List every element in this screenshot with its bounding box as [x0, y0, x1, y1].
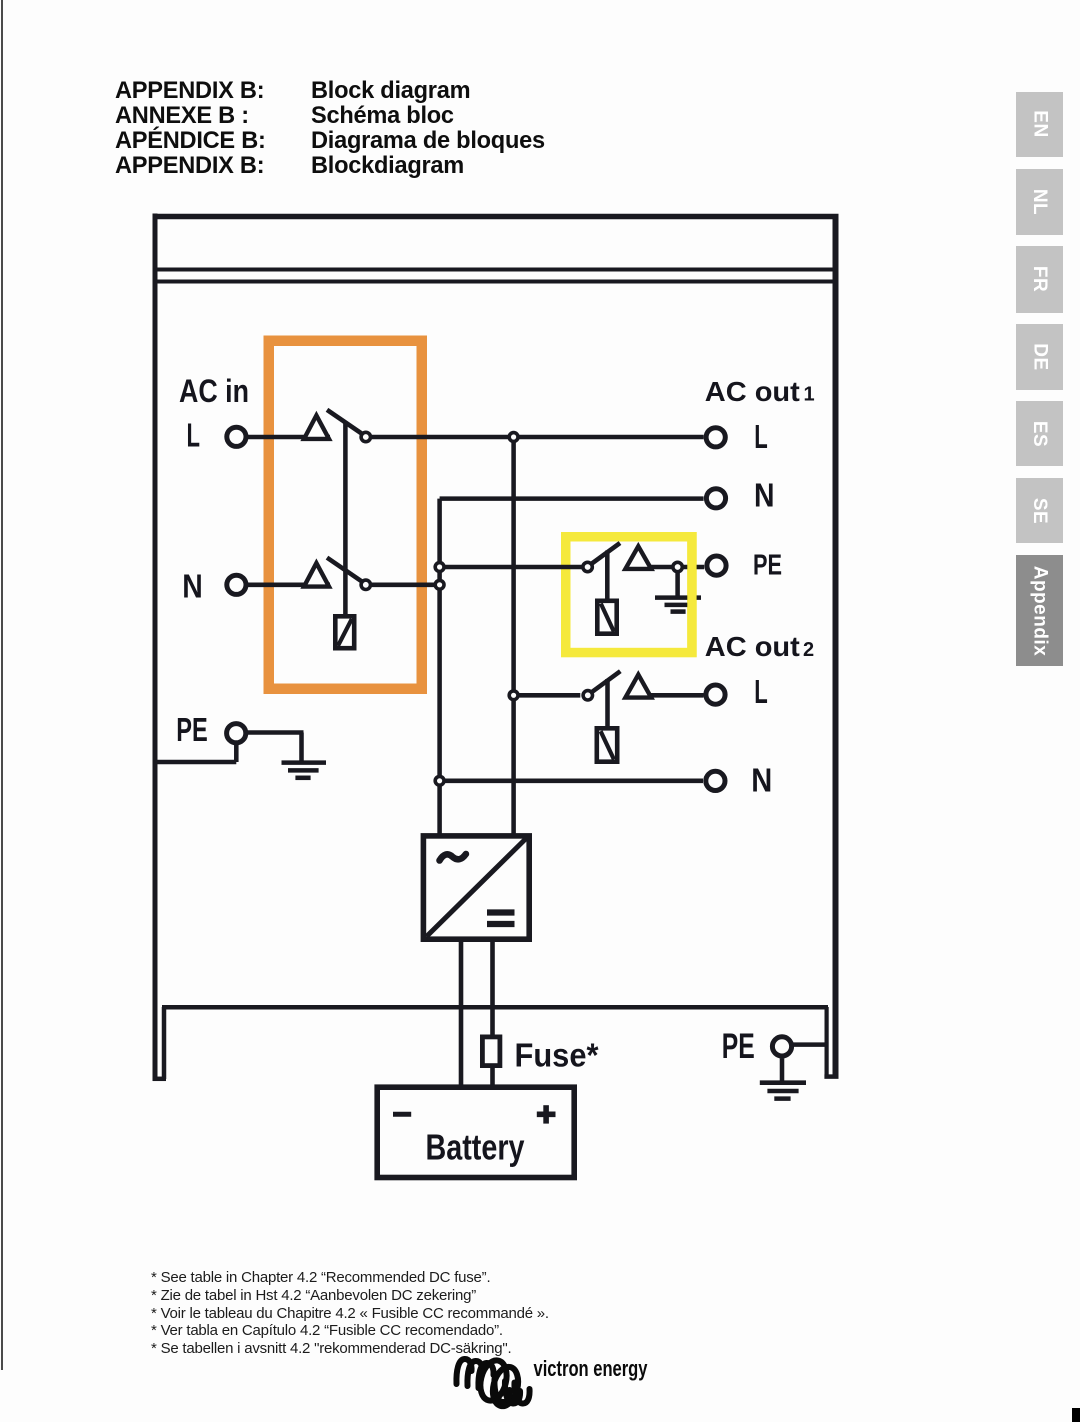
svg-text:PE: PE	[753, 549, 782, 581]
node N bus AC-out2	[435, 776, 444, 785]
AC-out2 relay pivot	[583, 691, 592, 700]
node N bus to ground relay	[435, 563, 444, 572]
svg-text:AC out: AC out	[705, 376, 800, 407]
ground relay link	[605, 551, 610, 599]
node N bus AC-in	[435, 580, 444, 589]
wire fuse to battery plus	[490, 1068, 495, 1086]
victron energy logo	[456, 1358, 529, 1409]
svg-text:Battery: Battery	[426, 1127, 525, 1168]
ground symbol at ground relay	[655, 572, 701, 612]
wire AC-out1 N horizontal	[440, 496, 704, 501]
language tab ES	[1016, 401, 1063, 466]
AC-out2 relay fixed contact triangle	[625, 675, 651, 698]
language tab DE	[1016, 324, 1063, 391]
wire chassis PE ground drop	[780, 1058, 785, 1080]
wire N bus to ground relay	[440, 565, 582, 570]
terminal AC-in L	[227, 427, 246, 446]
footnotes	[151, 1269, 549, 1359]
AC-out2 relay blade	[591, 671, 621, 693]
transfer switch N blade	[327, 558, 364, 583]
terminal AC-out1 L	[706, 428, 725, 447]
ground symbol at AC-in PE	[282, 763, 327, 778]
wire chassis PE terminal to right foot	[794, 1042, 829, 1047]
svg-text:PE: PE	[722, 1027, 755, 1066]
svg-text:PE: PE	[176, 711, 208, 748]
language tab NL	[1016, 169, 1063, 235]
wire PE ground drop	[299, 733, 304, 761]
terminal AC-out2 L	[706, 685, 725, 704]
transfer switch mechanical link	[343, 422, 348, 615]
wire AC-in L to transfer contact	[248, 435, 330, 440]
terminal AC-out2 N	[706, 771, 725, 790]
svg-text:L: L	[187, 417, 201, 454]
ground relay pivot	[583, 562, 592, 571]
svg-text:AC in: AC in	[179, 373, 249, 409]
ground relay blade	[591, 543, 621, 565]
svg-text:L: L	[754, 418, 768, 455]
chassis inner double line upper	[157, 268, 833, 272]
wire AC-in N to transfer contact	[248, 583, 330, 588]
wire transfer N pivot to node bus	[371, 583, 438, 588]
language tab EN	[1016, 92, 1063, 158]
terminal AC-in N	[227, 575, 246, 594]
svg-text:N: N	[751, 761, 772, 798]
transfer switch L fixed contact triangle	[304, 415, 329, 439]
ground relay output contact	[673, 562, 682, 571]
wire PE terminal drop to chassis	[234, 745, 239, 762]
wire contact node to AC-out1 PE	[683, 565, 704, 570]
svg-text:2: 2	[803, 639, 814, 661]
transfer switch N pivot	[361, 580, 370, 589]
chassis top edge	[153, 214, 839, 220]
AC-out2 relay link	[605, 679, 610, 726]
ground symbol at chassis PE	[760, 1083, 806, 1099]
node L bus AC-out2	[509, 691, 518, 700]
battery block	[377, 1087, 574, 1177]
language tab SE	[1016, 478, 1063, 543]
svg-text:AC out: AC out	[705, 631, 800, 662]
svg-text:N: N	[182, 567, 203, 604]
wire N bus vertical	[437, 499, 442, 834]
svg-text:1: 1	[804, 383, 815, 405]
wire L bus vertical	[511, 437, 516, 834]
tab Appendix (active)	[1016, 555, 1063, 666]
wire AC-in PE to ground stub	[248, 730, 304, 735]
transfer relay coil K1	[335, 616, 354, 648]
wire AC-out2 switch triangle to terminal	[651, 693, 704, 698]
transfer switch highlight box (orange)	[269, 341, 422, 689]
transfer switch L blade	[327, 410, 364, 435]
transfer switch L pivot	[361, 432, 370, 441]
chassis bottom edge	[162, 1005, 828, 1010]
language tab FR	[1016, 246, 1063, 313]
terminal AC-in PE	[227, 724, 246, 743]
terminal chassis PE	[772, 1037, 791, 1056]
transfer switch N fixed contact triangle	[304, 563, 329, 587]
svg-text:victron energy: victron energy	[534, 1356, 648, 1381]
ground relay coil K2	[597, 601, 616, 634]
yellow box right edge overlay	[687, 532, 696, 657]
chassis right wall	[833, 214, 839, 1078]
wire transfer L pivot to AC-out1 L	[371, 435, 704, 440]
ground relay fixed contact triangle	[625, 546, 651, 569]
svg-text:N: N	[754, 476, 775, 513]
node L bus top	[509, 433, 518, 442]
wire L bus to AC-out2 switch	[514, 693, 581, 698]
header titles	[115, 79, 266, 180]
svg-text:Fuse*: Fuse*	[515, 1036, 599, 1073]
svg-text:L: L	[754, 673, 768, 710]
ground relay highlight box (yellow)	[566, 537, 692, 653]
chassis left wall	[153, 214, 158, 1082]
AC-out2 relay coil K3	[597, 728, 617, 761]
wire inverter to fuse	[490, 942, 495, 1035]
wire ground relay triangle to contact node	[651, 565, 672, 570]
terminal AC-out1 PE	[707, 556, 726, 575]
chassis inner double line lower	[157, 280, 833, 284]
page corner black mark	[1072, 1408, 1080, 1422]
fuse F1	[482, 1037, 500, 1066]
wire inverter to battery minus	[459, 942, 464, 1086]
chassis left foot	[153, 1007, 166, 1079]
chassis right foot	[824, 1007, 838, 1077]
wire PE chassis bond	[157, 760, 236, 765]
left page rule	[1, 0, 3, 1370]
terminal AC-out1 N	[706, 489, 725, 508]
inverter/charger block U1	[423, 836, 529, 939]
wire N bus to AC-out2 N	[440, 779, 703, 784]
